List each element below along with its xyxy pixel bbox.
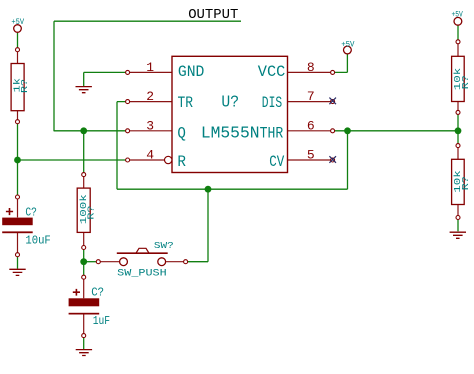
svg-text:1uF: 1uF	[93, 314, 110, 328]
svg-text:SW_PUSH: SW_PUSH	[117, 268, 167, 279]
svg-text:U?: U?	[221, 93, 239, 112]
svg-text:8: 8	[307, 60, 315, 75]
svg-text:CV: CV	[269, 153, 284, 171]
svg-text:5: 5	[307, 148, 315, 163]
svg-text:R?: R?	[461, 176, 471, 190]
svg-text:C?: C?	[25, 205, 37, 219]
svg-text:R?: R?	[20, 79, 30, 93]
svg-text:DIS: DIS	[262, 94, 282, 112]
svg-text:+5V: +5V	[452, 11, 463, 20]
svg-text:7: 7	[307, 89, 315, 104]
svg-text:TR: TR	[178, 94, 194, 112]
svg-text:+5V: +5V	[11, 18, 24, 27]
svg-text:6: 6	[307, 118, 315, 133]
svg-text:OUTPUT: OUTPUT	[188, 7, 238, 23]
svg-text:Q: Q	[177, 124, 186, 142]
svg-text:R?: R?	[87, 206, 97, 220]
svg-text:GND: GND	[178, 63, 205, 81]
svg-text:2: 2	[146, 89, 154, 104]
svg-text:R?: R?	[461, 75, 471, 89]
svg-text:1: 1	[146, 60, 154, 75]
svg-text:R: R	[177, 153, 186, 171]
svg-text:VCC: VCC	[258, 63, 286, 81]
svg-text:+5V: +5V	[341, 40, 354, 49]
svg-text:LM555N: LM555N	[201, 124, 260, 143]
svg-text:4: 4	[146, 148, 154, 163]
svg-text:3: 3	[146, 118, 154, 133]
svg-text:THR: THR	[260, 124, 284, 142]
svg-text:10uF: 10uF	[25, 233, 50, 247]
svg-text:SW?: SW?	[154, 240, 174, 251]
svg-text:C?: C?	[91, 285, 104, 299]
